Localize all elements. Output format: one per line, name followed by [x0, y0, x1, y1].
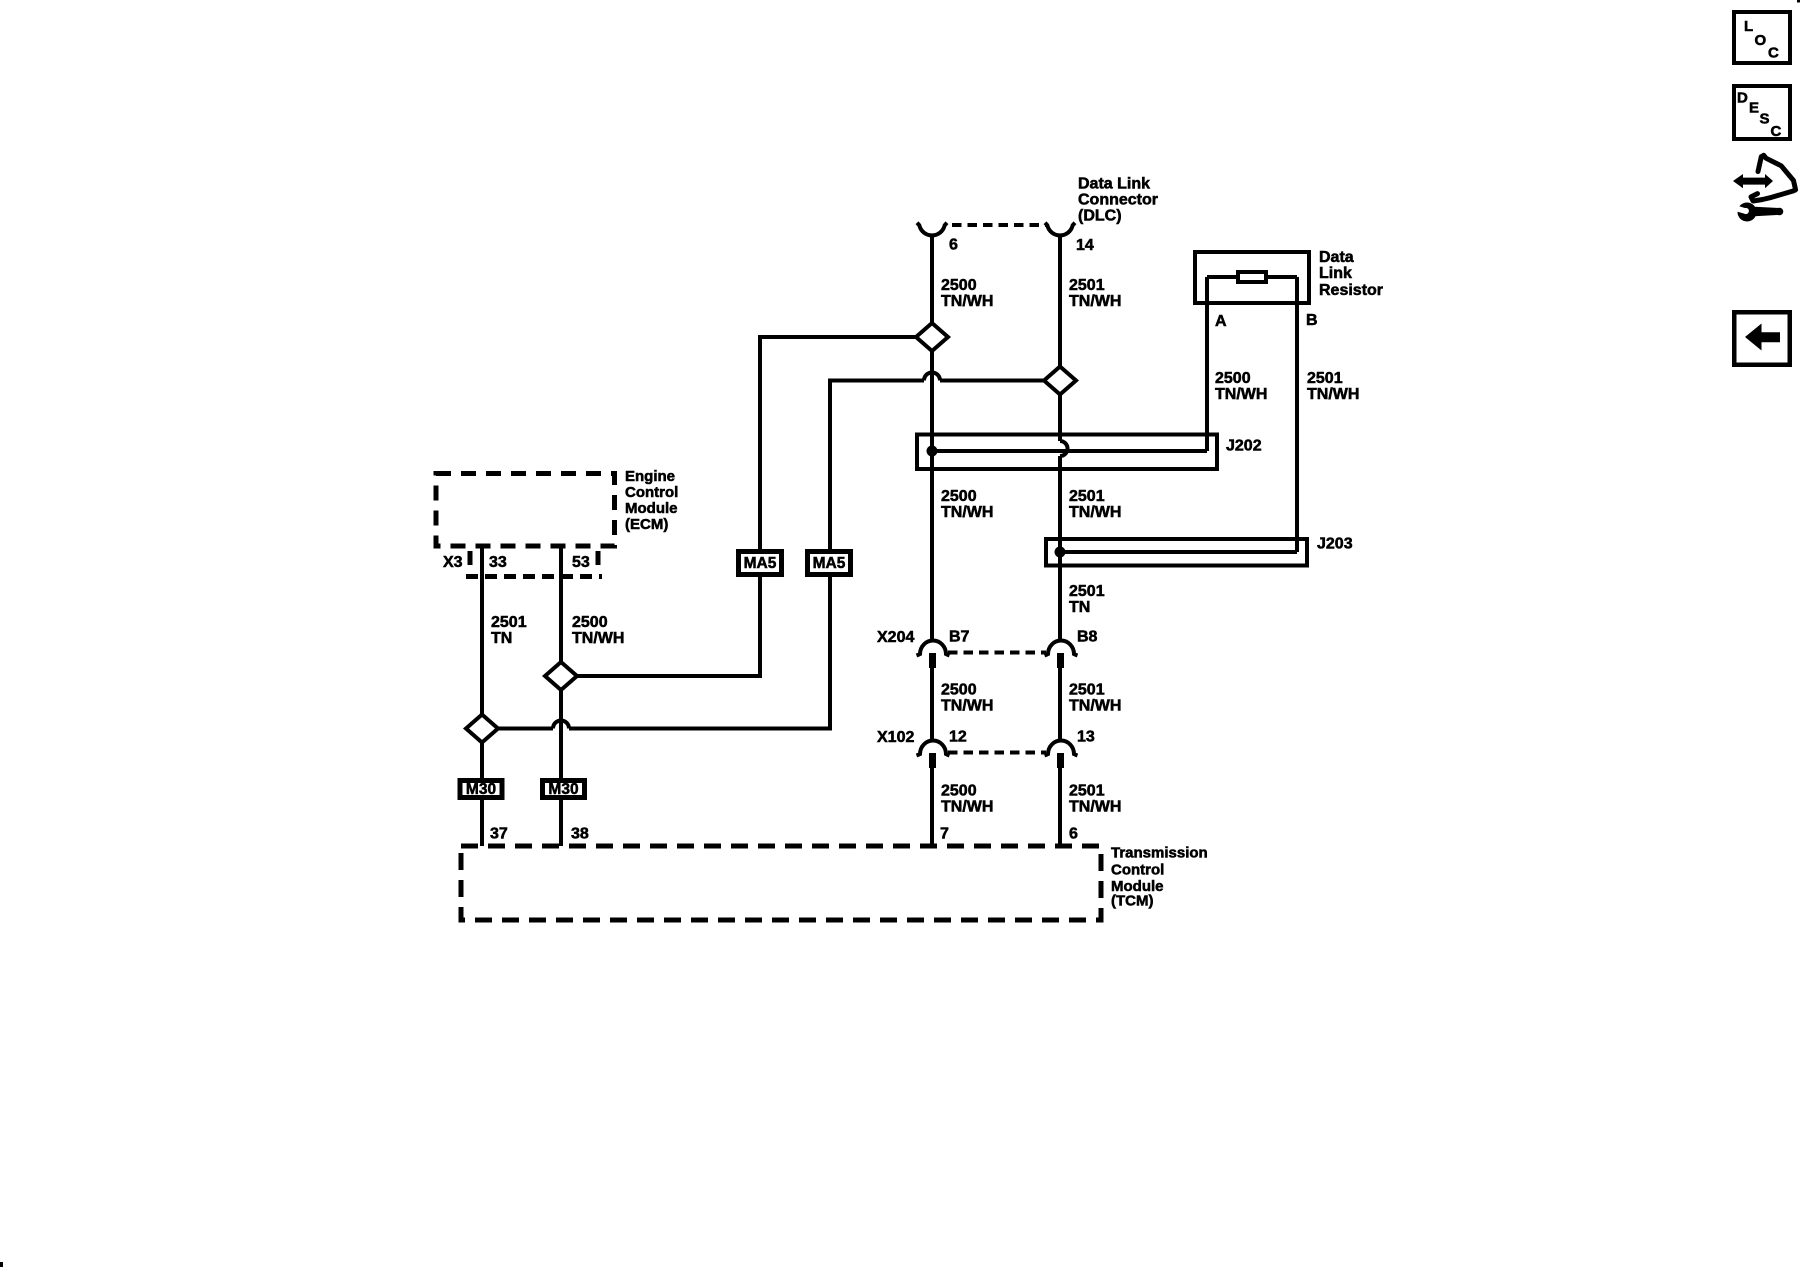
wire 2500 TN/WH resistor pin A to J202	[1205, 277, 1209, 451]
svg-text:M30: M30	[548, 781, 578, 798]
wire 2501 TN from ECM pin 33 down to TCM pin 37	[480, 546, 484, 846]
label 2501 TN/WH mid	[1069, 682, 1121, 715]
wire branch through MA5 no.1 (diamond at 932,337 to diamond at 561,676)	[577, 337, 916, 676]
label TCM pin 38	[571, 826, 589, 843]
svg-text:L: L	[1744, 18, 1753, 35]
connector DLC dashed link	[952, 223, 1046, 227]
svg-text:Link: Link	[1319, 265, 1352, 282]
svg-text:2501: 2501	[1069, 277, 1105, 294]
svg-text:J202: J202	[1226, 438, 1262, 455]
svg-text:TN/WH: TN/WH	[941, 799, 993, 816]
label 2500 TN/WH resistor A	[1215, 370, 1267, 403]
icon DESC box	[1734, 86, 1790, 140]
svg-text:(DLC): (DLC)	[1078, 208, 1122, 225]
connector M30 no.1	[460, 781, 502, 799]
svg-text:C: C	[1771, 123, 1782, 140]
splice diamond on 2501 at DLC branch	[1044, 367, 1076, 395]
label DLC	[1078, 176, 1158, 225]
svg-text:Engine: Engine	[625, 468, 675, 485]
junction dot J203	[1055, 547, 1066, 558]
label DLC pin 6	[949, 237, 958, 254]
label Data Link Resistor	[1319, 249, 1383, 299]
icon vehicle communication (car outline, double arrow, wrench)	[1733, 155, 1796, 221]
label 2501 TN/WH top	[1069, 277, 1121, 310]
svg-text:C: C	[1768, 45, 1779, 62]
svg-text:B: B	[1306, 312, 1318, 329]
svg-text:(TCM): (TCM)	[1111, 893, 1153, 910]
svg-text:2500: 2500	[572, 614, 608, 631]
svg-text:TN/WH: TN/WH	[941, 293, 993, 310]
connector MA5 no.1	[739, 552, 782, 575]
label resistor pin A	[1215, 313, 1227, 330]
label X3	[443, 554, 463, 571]
svg-text:6: 6	[949, 237, 958, 254]
splice diamond on 2500 at ECM branch	[545, 662, 577, 690]
svg-text:TN: TN	[1069, 599, 1090, 616]
label X204	[877, 629, 914, 646]
label DLC pin 14	[1076, 237, 1094, 254]
svg-text:53: 53	[572, 554, 590, 571]
svg-text:2501: 2501	[1069, 682, 1105, 699]
svg-text:Transmission: Transmission	[1111, 845, 1208, 862]
svg-text:B8: B8	[1077, 629, 1098, 646]
label pin 13	[1077, 729, 1095, 746]
svg-text:Control: Control	[1111, 862, 1164, 879]
label 2500 TN/WH bottom	[941, 783, 993, 816]
label ECM	[625, 468, 678, 533]
svg-text:A: A	[1215, 313, 1227, 330]
junction dot J202	[927, 446, 938, 457]
icon back arrow box	[1734, 312, 1790, 365]
wire J203 internal splice line	[1060, 550, 1297, 554]
connector M30 no.2	[543, 781, 585, 799]
svg-text:D: D	[1737, 90, 1748, 107]
connector X204 terminal B7	[917, 641, 950, 669]
label 2500 TN/WH below J202	[941, 488, 993, 521]
svg-text:TN/WH: TN/WH	[1215, 386, 1267, 403]
splice diamond on 2501 at ECM branch	[466, 715, 498, 743]
connector J202	[917, 435, 1262, 470]
connector X102 terminal 12	[917, 741, 950, 769]
svg-text:2501: 2501	[1307, 370, 1343, 387]
svg-text:TN/WH: TN/WH	[1069, 293, 1121, 310]
svg-text:2500: 2500	[941, 682, 977, 699]
label 2500 TN/WH top	[941, 277, 993, 310]
svg-text:(ECM): (ECM)	[625, 516, 668, 533]
label pin B7	[949, 629, 970, 646]
svg-text:38: 38	[571, 826, 589, 843]
wire 2500 TN/WH from ECM pin 53 down to TCM pin 38	[559, 546, 563, 846]
svg-text:6: 6	[1069, 826, 1078, 843]
ECM dashed box	[436, 474, 615, 547]
svg-text:MA5: MA5	[744, 555, 777, 572]
label 2501 TN/WH below J202	[1069, 488, 1121, 521]
connector X102 dashed link	[948, 751, 1046, 755]
svg-text:O: O	[1755, 32, 1767, 49]
svg-text:M30: M30	[466, 781, 496, 798]
svg-text:2501: 2501	[1069, 488, 1105, 505]
connector X204 dashed link	[948, 651, 1046, 655]
svg-text:X102: X102	[877, 729, 914, 746]
svg-text:TN/WH: TN/WH	[572, 630, 624, 647]
svg-text:J203: J203	[1317, 536, 1353, 553]
svg-text:12: 12	[949, 729, 967, 746]
svg-text:2501: 2501	[491, 614, 527, 631]
resistor element	[1238, 272, 1266, 282]
label TCM pin 7	[940, 826, 949, 843]
label 2501 TN below J203	[1069, 583, 1105, 616]
connector MA5 no.2	[808, 552, 851, 575]
svg-text:TN/WH: TN/WH	[1069, 799, 1121, 816]
svg-text:B7: B7	[949, 629, 970, 646]
svg-text:TN/WH: TN/WH	[1069, 504, 1121, 521]
svg-text:Module: Module	[625, 500, 678, 517]
label TCM	[1111, 845, 1208, 910]
svg-text:Connector: Connector	[1078, 192, 1158, 209]
DLC terminal pin 14	[1045, 223, 1075, 236]
label ECM pin 33	[489, 554, 507, 571]
connector X102 terminal 13	[1045, 741, 1078, 769]
label ECM pin 53	[572, 554, 590, 571]
svg-text:2500: 2500	[941, 277, 977, 294]
svg-text:TN/WH: TN/WH	[941, 698, 993, 715]
label X102	[877, 729, 914, 746]
svg-text:14: 14	[1076, 237, 1094, 254]
svg-text:37: 37	[490, 826, 508, 843]
data link resistor box	[1195, 252, 1309, 303]
page corner mark	[1797, 0, 1800, 3]
svg-text:Data: Data	[1319, 249, 1354, 266]
svg-text:7: 7	[940, 826, 949, 843]
svg-text:E: E	[1749, 100, 1759, 117]
svg-text:X204: X204	[877, 629, 914, 646]
svg-text:13: 13	[1077, 729, 1095, 746]
svg-text:MA5: MA5	[813, 555, 846, 572]
label 2500 TN/WH mid	[941, 682, 993, 715]
label TCM pin 37	[490, 826, 508, 843]
label pin 12	[949, 729, 967, 746]
svg-text:2500: 2500	[1215, 370, 1251, 387]
svg-text:Resistor: Resistor	[1319, 282, 1383, 299]
svg-text:X3: X3	[443, 554, 463, 571]
splice diamond on 2500 at DLC branch	[916, 323, 948, 351]
svg-text:2500: 2500	[941, 783, 977, 800]
label 2501 TN/WH resistor B	[1307, 370, 1359, 403]
svg-text:2501: 2501	[1069, 783, 1105, 800]
ECM connector X3 dashed row	[466, 551, 602, 577]
svg-text:33: 33	[489, 554, 507, 571]
svg-text:TN/WH: TN/WH	[1307, 386, 1359, 403]
svg-text:Control: Control	[625, 484, 678, 501]
wire 2500 TN/WH from DLC pin 6 down to TCM pin 7	[930, 236, 934, 846]
connector J203	[1046, 536, 1353, 566]
label 2501 TN left	[491, 614, 527, 647]
svg-text:TN/WH: TN/WH	[941, 504, 993, 521]
svg-text:2501: 2501	[1069, 583, 1105, 600]
DLC terminal pin 6	[917, 223, 947, 236]
svg-text:TN: TN	[491, 630, 512, 647]
wire branch through MA5 no.2 (diamond at 1060,380 to diamond at 482,728 with hops)	[498, 373, 1044, 729]
label TCM pin 6	[1069, 826, 1078, 843]
wire 2501 TN/WH from DLC pin 14 down to TCM pin 6 (hops J202 splice line)	[1060, 236, 1068, 846]
label pin B8	[1077, 629, 1098, 646]
svg-text:2500: 2500	[941, 488, 977, 505]
svg-text:S: S	[1760, 111, 1770, 128]
wire J202 internal splice line	[932, 449, 1207, 453]
label resistor pin B	[1306, 312, 1318, 329]
TCM dashed box	[461, 846, 1101, 920]
page bottom-left mark	[0, 1262, 3, 1267]
label 2500 TN/WH left	[572, 614, 624, 647]
svg-text:Data Link: Data Link	[1078, 176, 1150, 193]
icon LOC box	[1734, 12, 1790, 63]
svg-text:TN/WH: TN/WH	[1069, 698, 1121, 715]
wire 2501 TN/WH resistor pin B to J203	[1295, 277, 1299, 552]
connector X204 terminal B8	[1045, 641, 1078, 669]
wire resistor internal links A-B	[1207, 275, 1297, 279]
label 2501 TN/WH bottom	[1069, 783, 1121, 816]
